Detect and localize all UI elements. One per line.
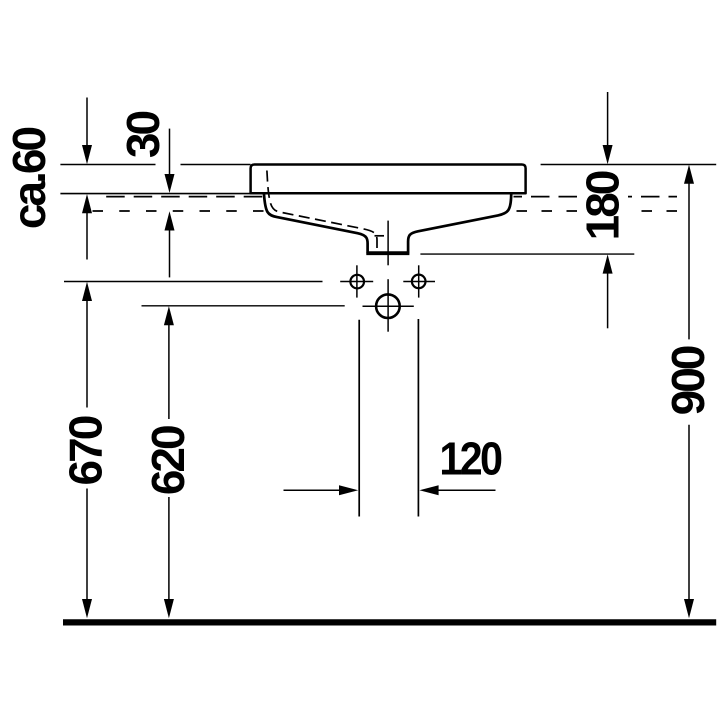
dimension 620 upper arrow — [164, 306, 174, 325]
washbasin bowl outer profile — [264, 194, 511, 252]
dimension 900 lower arrow — [684, 599, 694, 618]
reference line rim-top level y=164 left segment — [60, 164, 155, 166]
dimension 30 lower arrow — [165, 211, 175, 230]
label 180 background mask — [581, 170, 628, 242]
hidden dashed line y=211 left — [93, 210, 264, 212]
svg-text:30: 30 — [117, 112, 169, 159]
dimension 900 upper arrow — [684, 165, 694, 184]
svg-text:ca.60: ca.60 — [3, 128, 55, 230]
dimension 180 lower arrow — [603, 254, 613, 273]
dimension 120 extension line right — [417, 319, 419, 517]
floor line — [63, 619, 716, 625]
hidden dashed drain ledge — [375, 235, 385, 237]
svg-text:620: 620 — [142, 426, 194, 495]
svg-text:900: 900 — [662, 346, 714, 415]
dimension ca.60 lower arrow — [82, 194, 92, 213]
washbasin rim outline — [251, 165, 526, 194]
hidden dashed line y=196 left — [106, 196, 263, 198]
washbasin drain bottom edge — [366, 252, 409, 255]
reference line faucet-hole level y=281 — [64, 281, 323, 283]
dimension 670 lower arrow — [82, 599, 92, 618]
hidden dashed line y=211 right — [513, 210, 677, 212]
dimension 620 line lower — [168, 497, 170, 614]
reference line counter surface y=193 — [60, 193, 250, 195]
reference line rim-top level y=164 right segment — [541, 164, 717, 166]
dimension 620 line upper — [168, 322, 170, 419]
dimension 120 right line — [425, 489, 496, 491]
dimension ca.60 upper line — [86, 98, 88, 161]
centerline of drain lower segment — [387, 279, 389, 332]
dimension 180 upper arrow — [603, 145, 613, 164]
dimension 670 line lower — [86, 489, 88, 615]
dimension 670 upper arrow — [82, 282, 92, 301]
svg-text:180: 180 — [577, 171, 629, 240]
dimension 120 left line — [284, 489, 354, 491]
faucet hole right cross vertical — [418, 265, 420, 297]
faucet hole right circle — [412, 275, 426, 289]
svg-text:670: 670 — [59, 416, 111, 485]
reference line trap-bottom level y=254 right — [420, 253, 634, 255]
faucet hole left cross horizontal — [340, 281, 373, 283]
faucet hole left cross vertical — [356, 265, 358, 297]
reference line rim-top level y=164 middle segment — [181, 164, 251, 166]
dimension ca.60 upper arrow — [82, 145, 92, 164]
dimension 120 right arrow — [419, 485, 438, 495]
faucet hole left circle — [350, 275, 364, 289]
dimension 620 lower arrow — [164, 599, 174, 618]
dimension 30 upper line — [169, 129, 171, 189]
reference line drain-hole level y=306 — [142, 305, 345, 307]
svg-text:120: 120 — [439, 434, 501, 486]
dimension 30 upper arrow — [165, 174, 175, 193]
dimension 180 lower line — [607, 271, 609, 328]
drain hole cross horizontal — [363, 305, 414, 307]
dimension 120 left arrow — [339, 485, 358, 495]
dimension 180 upper line — [607, 92, 609, 160]
hidden dashed line y=196 right — [514, 196, 678, 198]
dimension ca.60 lower line — [86, 210, 88, 260]
hidden dashed bowl inner profile — [267, 171, 377, 252]
drain hole circle — [376, 294, 400, 318]
dimension 670 line upper — [86, 298, 88, 408]
dimension 900 line lower — [688, 425, 690, 614]
centerline of drain — [387, 221, 389, 266]
dimension 900 line upper — [688, 181, 690, 339]
dimension 120 extension line left — [358, 320, 360, 517]
dimension 30 lower line — [169, 228, 171, 277]
faucet hole right cross horizontal — [403, 281, 435, 283]
